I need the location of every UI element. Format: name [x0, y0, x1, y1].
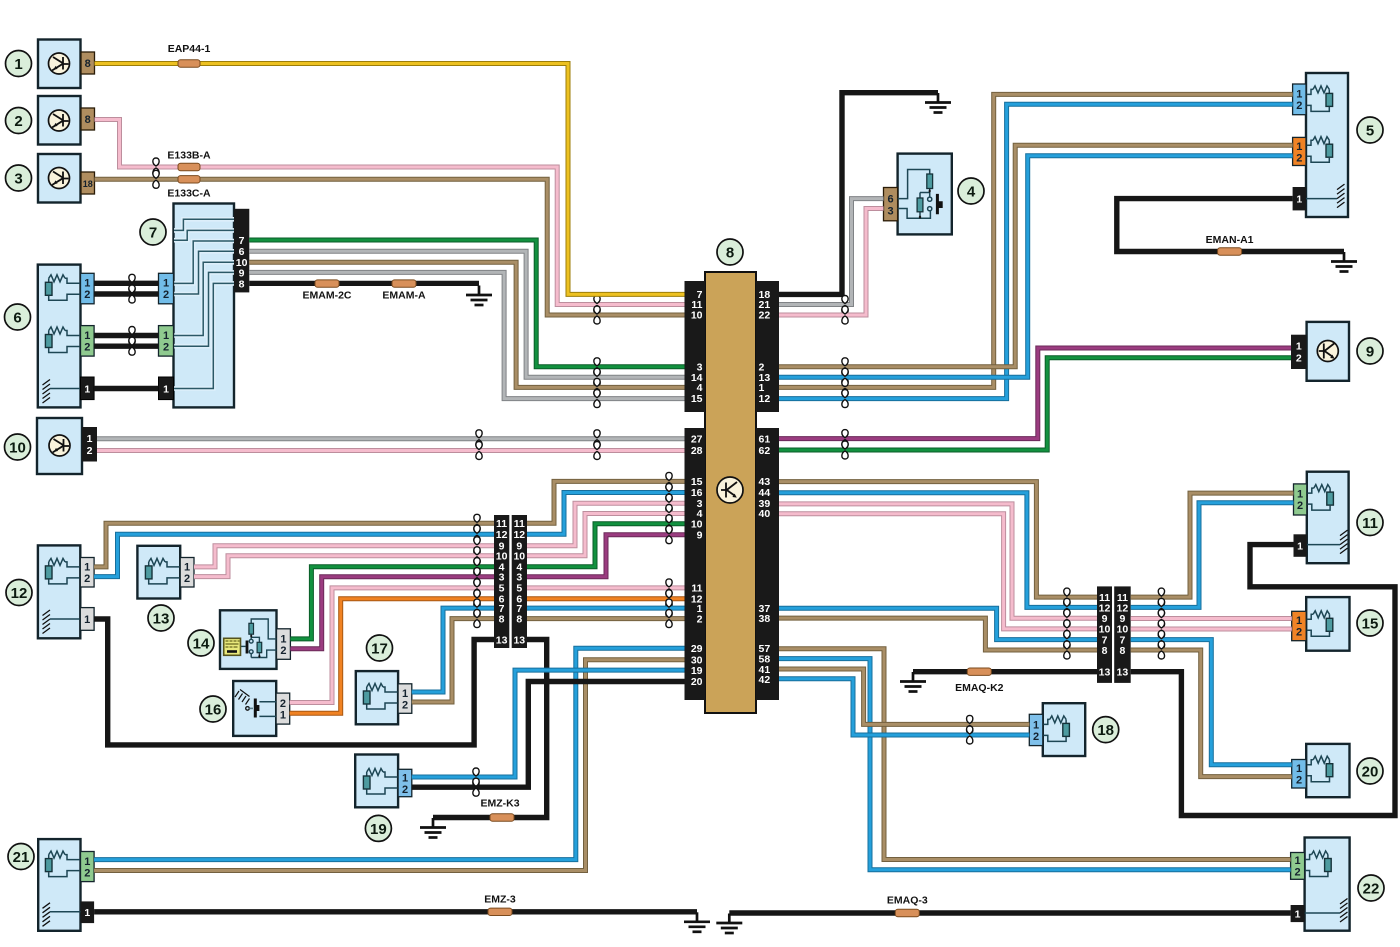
svg-text:40: 40 [759, 508, 771, 520]
svg-text:E133B-A: E133B-A [167, 150, 211, 162]
sensor 12 [38, 545, 94, 638]
svg-text:3: 3 [14, 171, 22, 188]
svg-text:E133C-A: E133C-A [167, 188, 211, 200]
svg-text:1: 1 [1295, 855, 1301, 867]
svg-text:19: 19 [370, 821, 387, 838]
badge 18 [1093, 717, 1119, 743]
connector 1 (lamp) [38, 40, 95, 89]
svg-text:1: 1 [1033, 720, 1039, 732]
wire blue : ECU8 pin16 to left strip pin12 right [527, 484, 685, 535]
splice EMZ-K3 [480, 798, 519, 822]
svg-text:1: 1 [84, 562, 90, 574]
svg-text:2: 2 [163, 342, 169, 354]
wire pink : left strip pin9 left to sensor13 pin1 [194, 537, 494, 567]
splice E133C-A [167, 176, 211, 200]
svg-text:13: 13 [153, 611, 170, 628]
splice EAP44-1 [168, 43, 211, 67]
badge 15 [1357, 610, 1383, 636]
svg-text:8: 8 [516, 614, 522, 626]
svg-text:8: 8 [239, 278, 245, 290]
inline connector (left double strip) [494, 515, 527, 648]
svg-text:2: 2 [184, 573, 190, 585]
wire blue : ECU8 pin37 to right strip pin7 left [779, 608, 1097, 648]
svg-text:29: 29 [691, 643, 703, 655]
connector 2 (lamp) [38, 96, 95, 145]
wire tan : sensor21 pin2 to ECU8 pin30 [94, 660, 684, 871]
svg-text:EMAM-A: EMAM-A [382, 290, 426, 302]
svg-text:13: 13 [496, 635, 508, 647]
svg-text:27: 27 [691, 434, 703, 446]
wire pink : ECU8 pin39 to right strip pin9 left [779, 504, 1097, 627]
wire black EMZ-3 : sensor21 pin1 to ground [94, 909, 697, 914]
svg-text:2: 2 [1296, 353, 1302, 365]
splice E133B-A [167, 150, 211, 171]
svg-text:16: 16 [205, 702, 222, 719]
sensor 22 [1291, 838, 1350, 931]
svg-text:1: 1 [280, 710, 286, 722]
wire blue : right strip pin7 right to injector20 pin1 [1131, 631, 1292, 765]
wire tan : ECU8 pin1 to unit5 blue pin1 [779, 94, 1293, 396]
svg-text:21: 21 [13, 849, 30, 866]
sensor 17 [356, 671, 412, 724]
wire black : injector11 pin1 to right strip pin13 right (ground loop) [1131, 545, 1395, 816]
wire black pair : unit6 pin1 to module7 pin1 (blue tab) [94, 274, 158, 292]
svg-text:1: 1 [1296, 763, 1302, 775]
svg-text:1: 1 [84, 856, 90, 868]
ground EMZ-3 [684, 912, 710, 932]
wire tan : left strip pin11 left to sensor12 pin1 [94, 514, 494, 567]
wire tan : right strip pin11 right to injector11 pin1 [1131, 493, 1294, 606]
wire tan : ECU8 pin41 to sensor18 pin1 [779, 669, 1029, 733]
wire gray : module7 pin9 to ECU8 pin15 [249, 272, 684, 407]
wire gray : module7 pin6 to ECU8 pin14 [249, 251, 684, 386]
badge 21 [8, 844, 34, 870]
svg-text:2: 2 [1296, 100, 1302, 112]
badge 20 [1357, 758, 1383, 784]
svg-text:2: 2 [1033, 731, 1039, 743]
svg-text:14: 14 [193, 636, 210, 653]
wire black pair : unit6 pin2 to module7 pin2 (blue tab) [94, 285, 158, 303]
badge 16 [200, 696, 226, 722]
badge 7 [140, 219, 166, 245]
svg-text:15: 15 [691, 393, 703, 405]
svg-text:2: 2 [1296, 153, 1302, 165]
svg-text:13: 13 [1117, 667, 1129, 679]
svg-text:EMAQ-K2: EMAQ-K2 [955, 682, 1004, 694]
wire gray : ECU8 pin21 to relay4 pin6 [779, 199, 884, 314]
svg-text:18: 18 [83, 179, 93, 189]
ground top [925, 93, 951, 113]
svg-text:2: 2 [1296, 775, 1302, 787]
switch 16 [233, 681, 290, 736]
badge 9 [1357, 338, 1383, 364]
svg-text:1: 1 [1296, 141, 1302, 153]
injector 15 [1292, 597, 1350, 651]
svg-text:1: 1 [84, 614, 90, 626]
svg-text:8: 8 [1102, 645, 1108, 657]
wire tan : module7 pin10 to ECU8 pin4 [249, 262, 684, 396]
svg-text:12: 12 [496, 529, 508, 541]
wire pink : right strip pin9 right to injector15 pin1 [1131, 610, 1292, 628]
svg-text:1: 1 [87, 433, 93, 445]
svg-text:38: 38 [759, 613, 771, 625]
svg-text:20: 20 [691, 676, 703, 688]
svg-text:2: 2 [697, 614, 703, 626]
ECU 8 (injection computer) [685, 272, 780, 713]
wire blue : left strip pin7 right to ECU8 pin1 [527, 599, 685, 617]
svg-text:2: 2 [1297, 500, 1303, 512]
wire black EMZ-K3 : left strip pin13 right to ground [433, 640, 547, 818]
splice EMZ-3 [484, 894, 516, 916]
wire yellow EAP44-1 : connector1 pin8 to ECU8 pin7 [95, 64, 685, 295]
badge 5 [1357, 117, 1383, 143]
ground EMAQ-3 [716, 914, 742, 934]
svg-text:13: 13 [1099, 667, 1111, 679]
switch 14 (with indicator) [220, 610, 290, 669]
svg-text:1: 1 [1296, 615, 1302, 627]
svg-text:4: 4 [967, 184, 976, 201]
svg-text:2: 2 [1295, 867, 1301, 879]
wire tan : ECU8 pin15 to left strip pin11 right [527, 472, 685, 523]
wire black : left strip pin13 left to sensor12 pin1 (lower tab) [94, 619, 494, 745]
wire pink E133B-A : connector2 pin8 to ECU8 pin11 [95, 120, 685, 314]
svg-text:EMAM-2C: EMAM-2C [303, 290, 352, 302]
svg-text:1: 1 [14, 56, 22, 73]
badge 12 [6, 580, 32, 606]
svg-text:7: 7 [149, 225, 157, 242]
badge 14 [188, 630, 214, 656]
svg-text:1: 1 [1295, 909, 1301, 921]
svg-text:1: 1 [84, 907, 90, 919]
svg-text:18: 18 [1097, 722, 1114, 739]
wire green : ECU8 pin10 to left strip pin4 right [527, 515, 685, 567]
svg-text:20: 20 [1362, 764, 1379, 781]
svg-text:8: 8 [1119, 645, 1125, 657]
svg-text:EMZ-K3: EMZ-K3 [480, 798, 519, 810]
splice EMAN-A1 [1206, 234, 1254, 255]
badge 17 [367, 635, 393, 661]
module 7 (connection unit) [159, 204, 250, 408]
svg-text:2: 2 [84, 342, 90, 354]
wire tan E133C-A : connector3 pin18 to ECU8 pin10 [95, 170, 685, 324]
connector 3 (lamp) [38, 154, 95, 203]
svg-text:EMZ-3: EMZ-3 [484, 894, 516, 906]
svg-text:8: 8 [499, 614, 505, 626]
svg-text:13: 13 [513, 635, 525, 647]
wire black EMAQ-K2 : ground to right strip pin13 left [913, 669, 1097, 674]
wire pink : ECU8 pin4 to left strip pin10 right [527, 505, 685, 556]
svg-text:1: 1 [402, 773, 408, 785]
svg-text:10: 10 [9, 440, 26, 457]
svg-text:2: 2 [84, 573, 90, 585]
wire black : sensor19 pin2 to ECU8 pin20 [412, 682, 685, 797]
wire green : ECU8 pin62 to sensor9 pin2 [779, 358, 1291, 459]
svg-text:EAP44-1: EAP44-1 [168, 43, 211, 55]
wire tan : ECU8 pin38 to right strip pin8 left [779, 618, 1097, 659]
svg-text:6: 6 [887, 194, 893, 206]
wire tan : ECU8 pin2 to unit5 orange pin1 [779, 145, 1293, 376]
sensor 13 [137, 546, 194, 599]
splice EMAQ-K2 [955, 668, 1004, 694]
wire tan : ECU8 pin43 to right strip pin11 left [779, 482, 1097, 606]
wire purple : ECU8 pin9 to left strip pin3 right [527, 526, 685, 577]
wire pink : left strip pin10 left to sensor13 pin2 [194, 547, 494, 577]
splice EMAQ-3 [887, 895, 928, 917]
svg-text:2: 2 [1296, 627, 1302, 639]
wire pink : connector10 pin2 to ECU8 pin28 [97, 442, 685, 460]
svg-text:EMAQ-3: EMAQ-3 [887, 895, 928, 907]
component 6 (twin resistor unit) [38, 265, 94, 408]
wire black pair : unit6 pin1 to module7 pin1 (green tab) [94, 327, 158, 345]
wire blue : left strip pin7 left to sensor17 pin1 [412, 599, 494, 692]
svg-text:2: 2 [280, 698, 286, 710]
wire pink : left strip pin5 left to switch16 pin2 [290, 579, 494, 703]
svg-text:1: 1 [1297, 541, 1303, 553]
svg-text:2: 2 [84, 289, 90, 301]
connector 10 (lamp) [37, 418, 97, 474]
svg-text:2: 2 [163, 289, 169, 301]
wire blue : right strip pin12 right to injector11 pin2 [1131, 503, 1294, 617]
inline connector (right double strip) [1097, 586, 1131, 683]
wire pink : left strip pin5 right to ECU8 pin11 [527, 579, 685, 597]
relay 4 [884, 154, 952, 235]
wire tan : right strip pin8 right to injector20 pin2 [1131, 641, 1292, 777]
sensor 18 [1029, 703, 1085, 756]
sensor 9 (K symbol) [1291, 322, 1349, 381]
wire pink : ECU8 pin22 to relay4 pin3 [779, 209, 884, 325]
badge 1 [6, 51, 32, 77]
badge 22 [1358, 875, 1384, 901]
ground EMAQ-K2 [900, 672, 926, 692]
wire gray : connector10 pin1 to ECU8 pin27 [97, 430, 685, 448]
splice EMAM-2C [303, 280, 352, 302]
svg-text:15: 15 [1362, 616, 1379, 633]
badge 6 [5, 304, 31, 330]
svg-text:8: 8 [85, 114, 91, 126]
svg-text:1: 1 [1297, 489, 1303, 501]
wire blue : ECU8 pin44 to right strip pin12 left [779, 493, 1097, 617]
wire pink : ECU8 pin40 to right strip pin10 left [779, 514, 1097, 638]
svg-text:2: 2 [84, 868, 90, 880]
svg-text:1: 1 [163, 383, 169, 395]
svg-text:1: 1 [1296, 194, 1302, 206]
wire pink : right strip pin10 right to injector15 pin2 [1131, 620, 1292, 638]
injector 11 [1294, 472, 1349, 564]
badge 2 [6, 108, 32, 134]
svg-text:1: 1 [402, 688, 408, 700]
svg-text:62: 62 [759, 445, 771, 457]
wire black EMAN-A1 : unit5 pin1 to ground [1117, 199, 1344, 252]
badge 10 [5, 434, 31, 460]
wire blue : left strip pin12 left to sensor12 pin2 [94, 525, 494, 576]
svg-text:1: 1 [1296, 341, 1302, 353]
svg-text:1: 1 [1296, 89, 1302, 101]
svg-text:42: 42 [759, 674, 771, 686]
wire black pair : unit6 pin2 to module7 pin2 (green tab) [94, 337, 158, 355]
svg-text:3: 3 [887, 206, 893, 218]
wire blue : sensor21 pin1 to ECU8 pin29 [94, 648, 684, 859]
wire purple : left strip pin3 left to switch14 pin2 [290, 568, 494, 649]
wire black : ECU8 pin18 to ground [779, 93, 938, 295]
svg-text:2: 2 [14, 113, 22, 130]
svg-text:1: 1 [280, 634, 286, 646]
wire blue : sensor19 pin1 to ECU8 pin19 [412, 670, 685, 786]
wire pink : ECU8 pin3 to left strip pin9 right [527, 494, 685, 546]
badge 3 [6, 165, 32, 191]
wire orange : left strip pin6 left to switch16 pin1 [290, 590, 494, 714]
svg-text:9: 9 [1366, 344, 1374, 361]
svg-text:22: 22 [1363, 881, 1380, 898]
wire purple : ECU8 pin61 to sensor9 pin1 [779, 348, 1291, 448]
svg-text:8: 8 [85, 58, 91, 70]
sensor 21 [38, 839, 94, 931]
svg-text:12: 12 [11, 585, 28, 602]
svg-text:2: 2 [87, 445, 93, 457]
svg-text:5: 5 [1366, 123, 1374, 140]
wire black EMAM : module7 pin8 to ground [249, 281, 479, 286]
wire blue : ECU8 pin58 to sensor22 pin2 [779, 659, 1291, 870]
wire blue : ECU8 pin12 to unit5 blue pin2 [779, 104, 1293, 407]
svg-text:9: 9 [697, 530, 703, 542]
svg-text:2: 2 [402, 700, 408, 712]
svg-text:EMAN-A1: EMAN-A1 [1206, 234, 1254, 246]
injector 20 [1292, 744, 1350, 797]
badge 19 [365, 815, 391, 841]
wire tan : ECU8 pin57 to sensor22 pin1 [779, 649, 1291, 860]
svg-text:17: 17 [371, 641, 388, 658]
component 5 (twin sensor-resistor unit) [1293, 73, 1348, 217]
svg-text:12: 12 [513, 529, 525, 541]
wire tan : left strip pin8 left to sensor17 pin2 [412, 610, 494, 702]
wire tan : left strip pin8 right to ECU8 pin2 [527, 610, 685, 628]
wire blue : ECU8 pin42 to sensor18 pin2 [779, 679, 1029, 744]
svg-text:61: 61 [759, 434, 771, 446]
ground EMAM [466, 286, 492, 306]
svg-text:10: 10 [691, 310, 703, 322]
wire black : unit6 pin1 to module7 pin1 (black tab) [94, 386, 158, 391]
svg-text:1: 1 [84, 330, 90, 342]
svg-text:1: 1 [84, 383, 90, 395]
svg-text:2: 2 [402, 784, 408, 796]
svg-text:2: 2 [280, 645, 286, 657]
svg-text:8: 8 [726, 245, 734, 262]
svg-text:22: 22 [759, 310, 771, 322]
wire green : left strip pin4 left to switch14 pin1 [290, 558, 494, 639]
svg-text:6: 6 [13, 310, 21, 327]
sensor 19 [355, 755, 412, 808]
splice EMAM-A [382, 280, 426, 302]
svg-text:1: 1 [163, 278, 169, 290]
wire green : module7 pin7 to ECU8 pin3 [249, 240, 684, 376]
ground EMZ-K3 [420, 818, 446, 838]
wire black EMAQ-3 : ground to sensor22 pin1 [729, 910, 1290, 915]
svg-text:1: 1 [163, 330, 169, 342]
svg-text:11: 11 [1362, 515, 1378, 532]
svg-text:1: 1 [84, 278, 90, 290]
badge 13 [148, 605, 174, 631]
svg-text:1: 1 [184, 562, 190, 574]
wire orange : left strip pin6 right to ECU8 pin12 [527, 590, 685, 608]
ground EMAN-A1 [1331, 252, 1357, 272]
svg-text:28: 28 [691, 445, 703, 457]
badge 4 [958, 178, 984, 204]
wire blue : ECU8 pin13 to unit5 orange pin2 [779, 156, 1293, 387]
badge 11 [1357, 510, 1383, 536]
badge 8 [717, 239, 743, 265]
svg-text:12: 12 [759, 393, 771, 405]
